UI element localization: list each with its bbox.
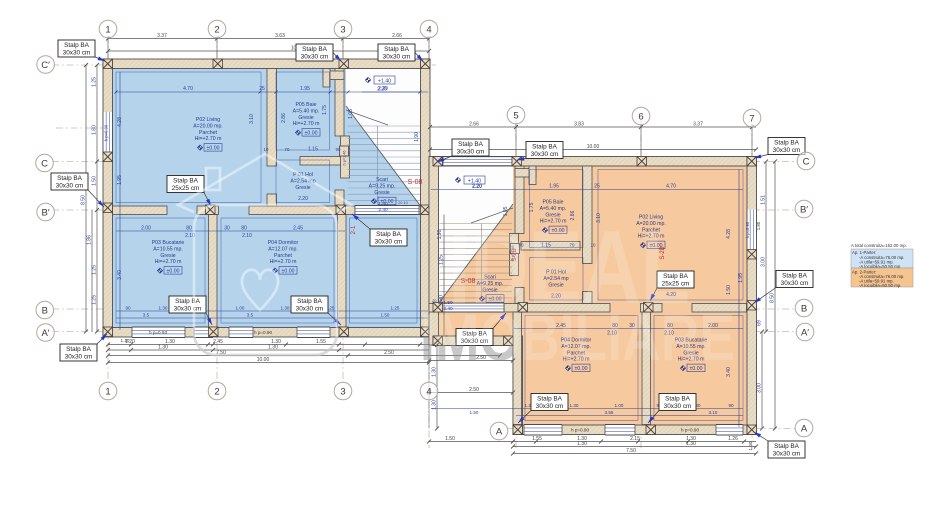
svg-text:Stalp BA: Stalp BA: [64, 42, 90, 49]
svg-text:30x30 cm: 30x30 cm: [63, 50, 91, 57]
svg-text:P05 Baie: P05 Baie: [542, 200, 563, 206]
svg-text:30x30 cm: 30x30 cm: [56, 183, 84, 190]
svg-text:-A locuibila=50.50 mp.: -A locuibila=50.50 mp.: [859, 283, 901, 288]
svg-text:1.25: 1.25: [92, 265, 98, 275]
svg-text:1.50: 1.50: [92, 176, 98, 186]
svg-text:P02 Living: P02 Living: [196, 117, 220, 123]
svg-text:Gresie: Gresie: [374, 190, 389, 196]
svg-text:Stalp BA: Stalp BA: [537, 396, 563, 403]
svg-text:70: 70: [285, 147, 290, 152]
svg-text:Hi=+2.70 m: Hi=+2.70 m: [270, 259, 297, 265]
svg-text:1.15: 1.15: [308, 147, 318, 153]
svg-text:3.00: 3.00: [757, 383, 763, 393]
svg-text:1.25: 1.25: [391, 306, 400, 311]
svg-text:3.55: 3.55: [605, 410, 614, 415]
svg-text:30x30 cm: 30x30 cm: [531, 151, 559, 158]
svg-text:1.30: 1.30: [268, 345, 278, 351]
svg-text:Hi=+2.70 m: Hi=+2.70 m: [155, 259, 182, 265]
svg-text:Stalp BA: Stalp BA: [376, 231, 402, 238]
svg-text:80: 80: [186, 226, 192, 232]
svg-text:2.66: 2.66: [469, 122, 479, 128]
svg-text:90: 90: [336, 147, 341, 152]
svg-text:1: 1: [105, 24, 110, 35]
svg-text:Parchet: Parchet: [274, 253, 292, 259]
svg-text:3.83: 3.83: [574, 122, 584, 128]
svg-text:B: B: [801, 303, 807, 314]
svg-text:A′: A′: [41, 328, 49, 339]
svg-text:h p=0.90: h p=0.90: [745, 221, 750, 238]
svg-text:1.30: 1.30: [570, 403, 579, 408]
svg-text:30x30 cm: 30x30 cm: [457, 149, 485, 156]
svg-text:1.00: 1.00: [615, 403, 624, 408]
svg-text:30x30 cm: 30x30 cm: [375, 239, 403, 246]
svg-text:2.10: 2.10: [242, 233, 252, 239]
svg-text:3: 3: [340, 24, 345, 35]
svg-text:10: 10: [264, 147, 269, 152]
svg-text:1.95: 1.95: [549, 184, 559, 190]
svg-text:8.50: 8.50: [81, 195, 87, 205]
svg-text:1.25: 1.25: [439, 255, 445, 265]
svg-text:1.30: 1.30: [577, 441, 587, 447]
svg-text:10.00: 10.00: [587, 144, 600, 150]
svg-text:30x30 cm: 30x30 cm: [664, 403, 692, 410]
svg-text:Stalp BA: Stalp BA: [774, 443, 800, 450]
svg-text:2.45: 2.45: [213, 339, 223, 345]
svg-text:3: 3: [340, 386, 345, 397]
svg-text:Stalp BA: Stalp BA: [302, 46, 328, 53]
svg-text:1.55: 1.55: [532, 436, 542, 442]
svg-text:80: 80: [241, 226, 247, 232]
svg-text:A=12.07 mp.: A=12.07 mp.: [268, 246, 298, 252]
svg-text:1.90: 1.90: [414, 132, 420, 142]
svg-text:4.28: 4.28: [726, 229, 732, 239]
svg-text:3.40: 3.40: [117, 270, 123, 280]
svg-text:h p=0.90: h p=0.90: [681, 428, 699, 433]
svg-text:Stalp BA: Stalp BA: [774, 140, 800, 147]
svg-text:25: 25: [594, 184, 600, 190]
svg-text:2.00: 2.00: [141, 226, 151, 232]
svg-text:1.30: 1.30: [748, 441, 753, 450]
svg-text:1.80: 1.80: [92, 125, 98, 135]
svg-text:10.00: 10.00: [257, 357, 270, 363]
svg-text:2.20: 2.20: [298, 196, 308, 202]
svg-text:30x30 cm: 30x30 cm: [773, 147, 801, 154]
svg-text:1.50: 1.50: [726, 285, 732, 295]
svg-text:S-08: S-08: [408, 179, 423, 186]
svg-text:B′: B′: [800, 204, 808, 215]
svg-text:2: 2: [214, 24, 219, 35]
svg-text:A=9.25 mp.: A=9.25 mp.: [369, 183, 396, 189]
svg-text:Stalp BA: Stalp BA: [66, 346, 92, 353]
svg-text:Stalp BA: Stalp BA: [173, 178, 199, 185]
svg-text:±0.00: ±0.00: [207, 146, 220, 152]
svg-text:A′: A′: [801, 327, 809, 338]
svg-text:A: A: [496, 426, 503, 437]
svg-text:2-1: 2-1: [351, 225, 357, 234]
svg-text:1.30: 1.30: [432, 400, 438, 410]
svg-text:1.30: 1.30: [686, 441, 696, 447]
svg-text:2.20: 2.20: [472, 184, 482, 190]
svg-text:h p=1.46: h p=1.46: [343, 151, 347, 166]
svg-text:30x30 cm: 30x30 cm: [773, 451, 801, 458]
svg-text:1.30: 1.30: [159, 306, 168, 311]
svg-text:1.86: 1.86: [87, 235, 93, 245]
svg-text:P05 Baie: P05 Baie: [295, 102, 316, 108]
svg-text:7.50: 7.50: [626, 448, 636, 454]
svg-text:1.95: 1.95: [300, 86, 310, 92]
svg-text:3.63: 3.63: [275, 33, 285, 39]
svg-text:Stalp BA: Stalp BA: [384, 46, 410, 53]
svg-text:C: C: [803, 156, 810, 167]
svg-text:A=10.55 mp.: A=10.55 mp.: [153, 246, 183, 252]
svg-text:69: 69: [757, 320, 763, 326]
svg-text:Stalp BA: Stalp BA: [57, 175, 83, 182]
svg-text:4.70: 4.70: [183, 86, 193, 92]
svg-text:1.90: 1.90: [437, 229, 443, 239]
svg-text:90: 90: [728, 403, 734, 408]
svg-text:2.86: 2.86: [281, 113, 287, 123]
svg-text:A=20.00 mp.: A=20.00 mp.: [193, 123, 223, 129]
svg-text:A: A: [801, 423, 808, 434]
svg-text:3.10: 3.10: [709, 410, 718, 415]
svg-text:B: B: [42, 305, 48, 316]
svg-text:1.26: 1.26: [728, 436, 738, 442]
svg-text:+1.40: +1.40: [378, 79, 391, 85]
svg-text:1.25: 1.25: [92, 77, 98, 87]
svg-text:Stalp BA: Stalp BA: [175, 298, 201, 305]
svg-text:1.30: 1.30: [158, 345, 168, 351]
svg-text:3.5: 3.5: [247, 313, 254, 318]
svg-text:±0.00: ±0.00: [167, 269, 180, 275]
svg-text:Stalp BA: Stalp BA: [665, 396, 691, 403]
svg-text:Parchet: Parchet: [199, 130, 217, 136]
svg-text:Gresie: Gresie: [160, 253, 175, 259]
svg-text:P03 Bucatarie: P03 Bucatarie: [152, 240, 185, 246]
svg-text:Hi=+2.70 m: Hi=+2.70 m: [293, 121, 320, 127]
svg-text:1.05: 1.05: [348, 109, 354, 119]
svg-text:25: 25: [259, 86, 265, 92]
svg-text:30: 30: [224, 226, 230, 232]
svg-text:2.45: 2.45: [293, 226, 303, 232]
svg-text:Gresie: Gresie: [298, 115, 313, 121]
svg-text:2: 2: [214, 386, 219, 397]
svg-text:2.20: 2.20: [377, 87, 387, 93]
svg-text:4: 4: [426, 24, 431, 35]
svg-text:h p=0.90: h p=0.90: [104, 124, 109, 141]
svg-text:30x30 cm: 30x30 cm: [65, 354, 93, 361]
svg-text:Scari: Scari: [376, 177, 388, 183]
svg-text:1.80: 1.80: [756, 221, 761, 230]
svg-text:3.10: 3.10: [249, 114, 255, 124]
svg-text:3.37: 3.37: [157, 33, 167, 39]
svg-text:2.15: 2.15: [630, 436, 640, 442]
svg-text:Stalp BA: Stalp BA: [782, 273, 808, 280]
svg-text:A=5.40 mp.: A=5.40 mp.: [293, 108, 320, 114]
svg-text:Hi=+2.70 m: Hi=+2.70 m: [195, 136, 222, 142]
svg-text:30x30 cm: 30x30 cm: [296, 306, 324, 313]
svg-text:8.50: 8.50: [770, 293, 776, 303]
svg-text:4.70: 4.70: [666, 184, 676, 190]
svg-text:1.51: 1.51: [761, 195, 767, 205]
svg-text:A total construita=152.00 mp.: A total construita=152.00 mp.: [851, 243, 907, 248]
svg-text:1.50: 1.50: [381, 313, 390, 318]
svg-text:2.66: 2.66: [392, 33, 402, 39]
svg-text:1.55: 1.55: [316, 339, 326, 345]
svg-text:6: 6: [638, 111, 643, 122]
svg-text:Gresie: Gresie: [295, 185, 310, 191]
svg-text:±0.00: ±0.00: [305, 131, 318, 137]
svg-text:1.30: 1.30: [281, 306, 290, 311]
svg-text:30x30 cm: 30x30 cm: [301, 54, 329, 61]
svg-text:Stalp BA: Stalp BA: [458, 141, 484, 148]
svg-text:3.5: 3.5: [143, 313, 150, 318]
svg-text:90: 90: [125, 306, 131, 311]
svg-text:1.75: 1.75: [322, 105, 328, 115]
svg-text:h p=0.93: h p=0.93: [149, 330, 167, 335]
svg-text:P04 Dormitor: P04 Dormitor: [268, 240, 299, 246]
svg-text:C: C: [41, 158, 48, 169]
svg-text:C′: C′: [41, 60, 50, 71]
svg-text:h p=0.90: h p=0.90: [254, 330, 272, 335]
svg-text:1: 1: [105, 386, 110, 397]
svg-text:5: 5: [513, 110, 518, 121]
svg-text:30x30 cm: 30x30 cm: [383, 54, 411, 61]
svg-text:3.00: 3.00: [761, 257, 767, 267]
svg-text:1.20: 1.20: [121, 338, 130, 343]
svg-text:7: 7: [749, 113, 754, 124]
svg-text:20 10: 20 10: [398, 201, 408, 205]
svg-text:3.37: 3.37: [693, 122, 703, 128]
svg-text:2.50: 2.50: [384, 350, 394, 356]
svg-text:Stalp BA: Stalp BA: [297, 298, 323, 305]
svg-text:2.50: 2.50: [469, 387, 479, 393]
svg-text:B′: B′: [42, 207, 50, 218]
svg-text:25x25 cm: 25x25 cm: [172, 185, 200, 192]
svg-text:Stalp BA: Stalp BA: [532, 144, 558, 151]
svg-text:1.95: 1.95: [117, 175, 123, 185]
svg-text:30x30 cm: 30x30 cm: [174, 306, 202, 313]
svg-text:2.40: 2.40: [378, 207, 388, 213]
svg-text:4.28: 4.28: [117, 117, 123, 127]
svg-text:1.95: 1.95: [738, 273, 744, 283]
svg-text:1.25: 1.25: [92, 295, 98, 305]
svg-text:±0.00: ±0.00: [282, 269, 295, 275]
svg-text:30x30 cm: 30x30 cm: [536, 403, 564, 410]
svg-text:4: 4: [426, 386, 431, 397]
svg-text:IMOBILIARE: IMOBILIARE: [420, 300, 735, 374]
svg-text:1.50: 1.50: [445, 436, 455, 442]
svg-text:h p=0.90: h p=0.90: [571, 428, 589, 433]
svg-text:±0.00: ±0.00: [381, 199, 394, 205]
svg-text:1.00: 1.00: [236, 306, 245, 311]
svg-text:1.50: 1.50: [470, 410, 479, 415]
svg-text:30x30 cm: 30x30 cm: [781, 280, 809, 287]
